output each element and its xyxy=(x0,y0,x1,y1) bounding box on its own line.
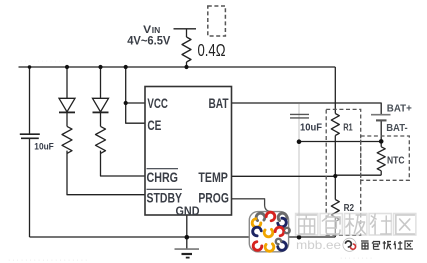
svg-text:TEMP: TEMP xyxy=(198,169,228,185)
svg-text:· · · · · · · · · · · ·: · · · · · · · · · · · · · · · · · · · xyxy=(8,257,87,263)
svg-text:0.4Ω: 0.4Ω xyxy=(198,40,226,60)
svg-text:BAT-: BAT- xyxy=(386,122,408,134)
svg-text:10uF: 10uF xyxy=(300,122,322,133)
svg-text:· · · · · · · ·: · · · · · · · · xyxy=(340,255,372,262)
svg-text:mbb.ee: mbb.ee xyxy=(296,238,341,252)
svg-text:· · · · · · · · · ·: · · · · · · · · · · · xyxy=(20,58,65,65)
svg-text:V: V xyxy=(143,24,152,36)
svg-text:4V~6.5V: 4V~6.5V xyxy=(127,36,171,48)
svg-text:CHRG: CHRG xyxy=(147,169,179,185)
svg-text:10uF: 10uF xyxy=(34,141,54,151)
svg-text:BAT: BAT xyxy=(209,95,229,111)
svg-text:R2: R2 xyxy=(344,203,355,214)
svg-text:VCC: VCC xyxy=(147,95,168,111)
svg-text:PROG: PROG xyxy=(198,190,229,206)
svg-text:BAT+: BAT+ xyxy=(387,103,412,115)
svg-text:CE: CE xyxy=(147,117,161,133)
svg-text:IN: IN xyxy=(152,25,161,35)
svg-text:GND: GND xyxy=(176,204,200,218)
svg-text:NTC: NTC xyxy=(387,156,405,167)
svg-text:R1: R1 xyxy=(343,122,353,133)
